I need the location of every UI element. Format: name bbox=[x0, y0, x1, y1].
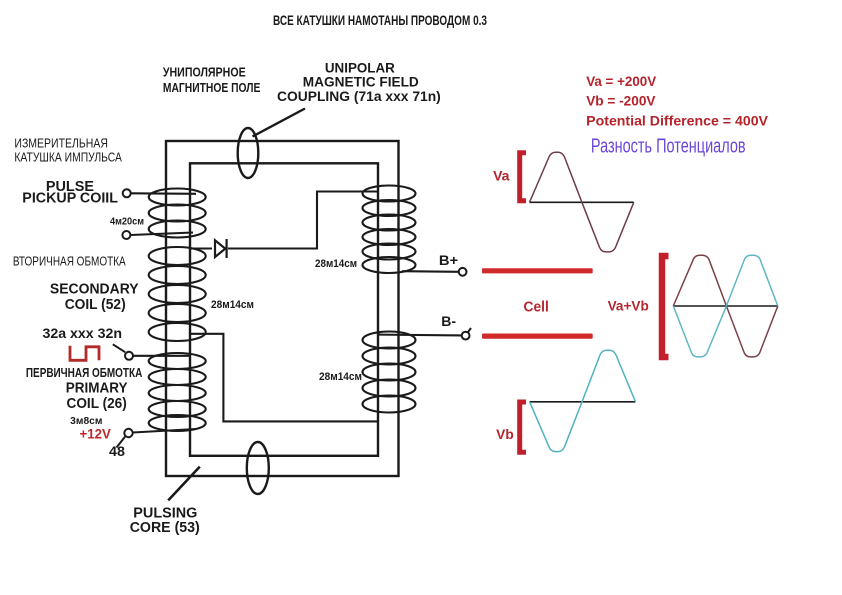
svg-text:PRIMARY: PRIMARY bbox=[66, 380, 128, 396]
terminal 32a (secondary tap) with tick bbox=[113, 344, 133, 360]
svg-text:PICKUP COIIL: PICKUP COIIL bbox=[22, 190, 118, 206]
coil L1 pulse pickup coil bbox=[149, 189, 206, 238]
coil L5 charging coil bottom right bbox=[363, 332, 416, 413]
wire diode to top right coil bbox=[228, 192, 379, 249]
svg-text:+12V: +12V bbox=[80, 426, 112, 442]
svg-text:Vb = -200V: Vb = -200V bbox=[586, 92, 656, 108]
terminal pulse pickup bottom bbox=[122, 231, 130, 239]
label Va = +200V bbox=[586, 73, 768, 128]
terminal B- with tick bbox=[462, 328, 471, 340]
svg-text:ВТОРИЧНАЯ ОБМОТКА: ВТОРИЧНАЯ ОБМОТКА bbox=[13, 255, 126, 269]
svg-text:28м14см: 28м14см bbox=[315, 258, 357, 270]
wire B+ from top right coil bbox=[402, 270, 459, 273]
svg-text:28м14см: 28м14см bbox=[211, 299, 254, 311]
waveform Vb component (teal) bbox=[673, 255, 778, 357]
coil L4 charging coil top right bbox=[363, 186, 416, 274]
waveform Vb (teal sine) bbox=[530, 350, 636, 451]
pointer line from COUPLING label to coupling loop bbox=[253, 109, 306, 137]
svg-text:CORE (53): CORE (53) bbox=[130, 520, 200, 536]
cell plate bottom (red) bbox=[482, 334, 593, 339]
svg-text:4м20см: 4м20см bbox=[110, 216, 144, 227]
svg-text:ИЗМЕРИТЕЛЬНАЯ: ИЗМЕРИТЕЛЬНАЯ bbox=[14, 137, 108, 151]
wire +12V terminal to coil bbox=[133, 429, 196, 433]
terminal B+ bbox=[459, 268, 467, 276]
svg-text:COUPLING (71a xxx 71n): COUPLING (71a xxx 71n) bbox=[277, 89, 441, 104]
svg-text:SECONDARY: SECONDARY bbox=[50, 282, 139, 298]
svg-text:УНИПОЛЯРНОЕ: УНИПОЛЯРНОЕ bbox=[163, 65, 246, 79]
svg-text:COIL (52): COIL (52) bbox=[65, 297, 126, 313]
terminal pulse pickup top bbox=[123, 189, 131, 197]
waveform Va (maroon sine) bbox=[530, 152, 634, 252]
pulse waveform symbol (red square wave) bbox=[70, 346, 99, 361]
core inner rectangle bbox=[190, 163, 378, 456]
svg-text:Potential Difference = 400V: Potential Difference = 400V bbox=[586, 112, 768, 128]
label PRIMARY COIL (26) bbox=[66, 380, 128, 412]
cell plate top (red) bbox=[482, 268, 593, 273]
svg-text:Va: Va bbox=[493, 168, 510, 183]
label UNIPOLAR MAGNETIC FIELD COUPLING (71a xxx 71n) bbox=[277, 61, 441, 104]
svg-text:32a xxx 32n: 32a xxx 32n bbox=[43, 326, 123, 341]
wire pickup bottom bbox=[130, 233, 193, 236]
pointer line to PULSING CORE label bbox=[168, 467, 200, 501]
svg-text:МАГНИТНОЕ ПОЛЕ: МАГНИТНОЕ ПОЛЕ bbox=[163, 81, 261, 95]
bracket Vb (red) bbox=[520, 402, 526, 452]
core outer rectangle bbox=[166, 141, 399, 476]
label ИЗМЕРИТЕЛЬНАЯ КАТУШКА ИМПУЛЬСА bbox=[14, 137, 122, 165]
coil L2 secondary coil (52) bbox=[149, 247, 206, 341]
svg-text:ПЕРВИЧНАЯ ОБМОТКА: ПЕРВИЧНАЯ ОБМОТКА bbox=[26, 366, 142, 380]
label PULSE PICKUP COIIL bbox=[22, 179, 118, 206]
coupling loop top (unipolar magnetic field) bbox=[238, 128, 259, 178]
svg-text:ВСЕ КАТУШКИ НАМОТАНЫ ПРОВОДОМ: ВСЕ КАТУШКИ НАМОТАНЫ ПРОВОДОМ 0.3 bbox=[273, 12, 487, 28]
svg-text:Разность Потенциалов: Разность Потенциалов bbox=[591, 134, 746, 157]
axis Va waveform bbox=[530, 201, 634, 203]
axis Vb waveform bbox=[530, 401, 636, 403]
waveform Va component (maroon) bbox=[673, 255, 778, 357]
svg-text:Va+Vb: Va+Vb bbox=[608, 298, 649, 314]
diode D1 anode wire bbox=[190, 247, 212, 249]
svg-text:КАТУШКА ИМПУЛЬСА: КАТУШКА ИМПУЛЬСА bbox=[14, 151, 122, 165]
label PULSING CORE (53) bbox=[130, 506, 200, 536]
svg-text:B+: B+ bbox=[439, 252, 458, 268]
svg-text:COIL (26): COIL (26) bbox=[67, 396, 127, 412]
bracket Va (red) bbox=[520, 153, 526, 201]
coupling loop bottom bbox=[247, 442, 269, 494]
label УНИПОЛЯРНОЕ МАГНИТНОЕ ПОЛЕ bbox=[163, 65, 261, 94]
wire secondary bottom to bottom right coil bbox=[190, 334, 379, 422]
bracket Va+Vb (large red) bbox=[662, 256, 669, 357]
diode D1 bbox=[215, 239, 227, 258]
svg-text:Va = +200V: Va = +200V bbox=[586, 73, 657, 89]
wire pickup top bbox=[131, 192, 196, 195]
svg-text:28м14см: 28м14см bbox=[319, 371, 362, 383]
label SECONDARY COIL (52) bbox=[50, 282, 139, 314]
terminal +12V with tick bbox=[117, 429, 133, 448]
wire 32a terminal to coil bbox=[133, 355, 190, 357]
svg-text:MAGNETIC FIELD: MAGNETIC FIELD bbox=[303, 74, 419, 89]
axis Va+Vb waveform bbox=[673, 305, 778, 307]
svg-text:Cell: Cell bbox=[524, 299, 549, 315]
svg-text:Vb: Vb bbox=[496, 427, 514, 442]
wire B- from bottom right coil bbox=[379, 334, 462, 337]
coil L3 primary coil (26) bbox=[149, 353, 206, 431]
svg-text:B-: B- bbox=[441, 313, 456, 329]
